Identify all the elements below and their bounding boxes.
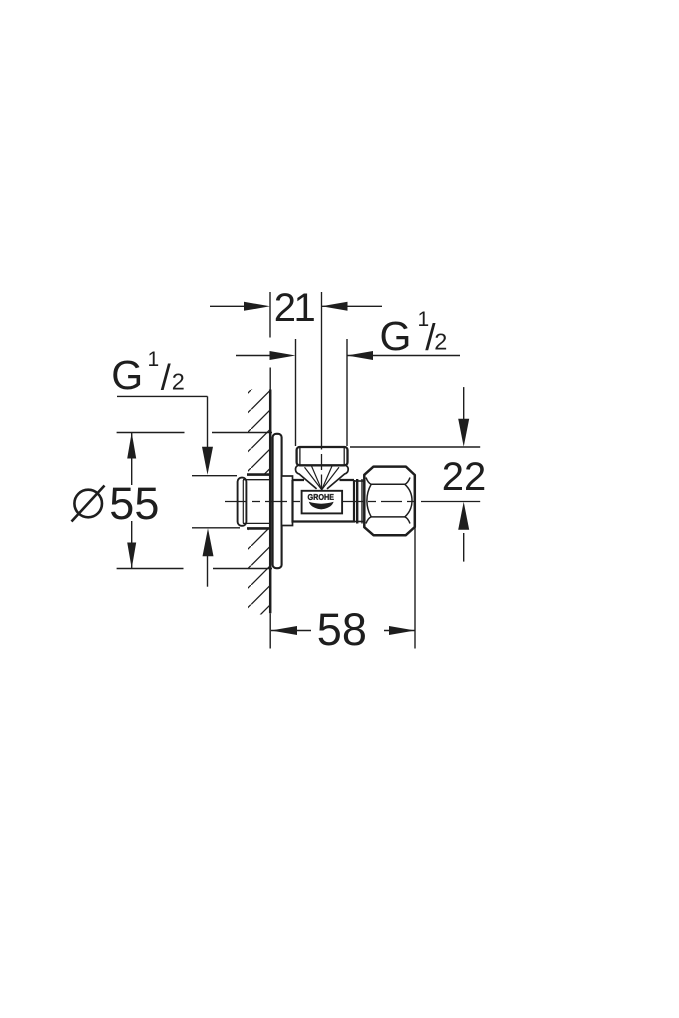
svg-text:58: 58 bbox=[317, 604, 367, 655]
svg-text:21: 21 bbox=[274, 286, 315, 330]
svg-text:55: 55 bbox=[109, 478, 159, 529]
svg-text:2: 2 bbox=[172, 368, 185, 394]
svg-text:1: 1 bbox=[148, 348, 160, 371]
svg-text:2: 2 bbox=[434, 329, 447, 355]
svg-text:/: / bbox=[161, 356, 171, 397]
svg-text:G: G bbox=[111, 352, 143, 398]
svg-text:GROHE: GROHE bbox=[307, 492, 334, 502]
svg-text:G: G bbox=[380, 313, 412, 359]
svg-text:22: 22 bbox=[442, 455, 487, 499]
